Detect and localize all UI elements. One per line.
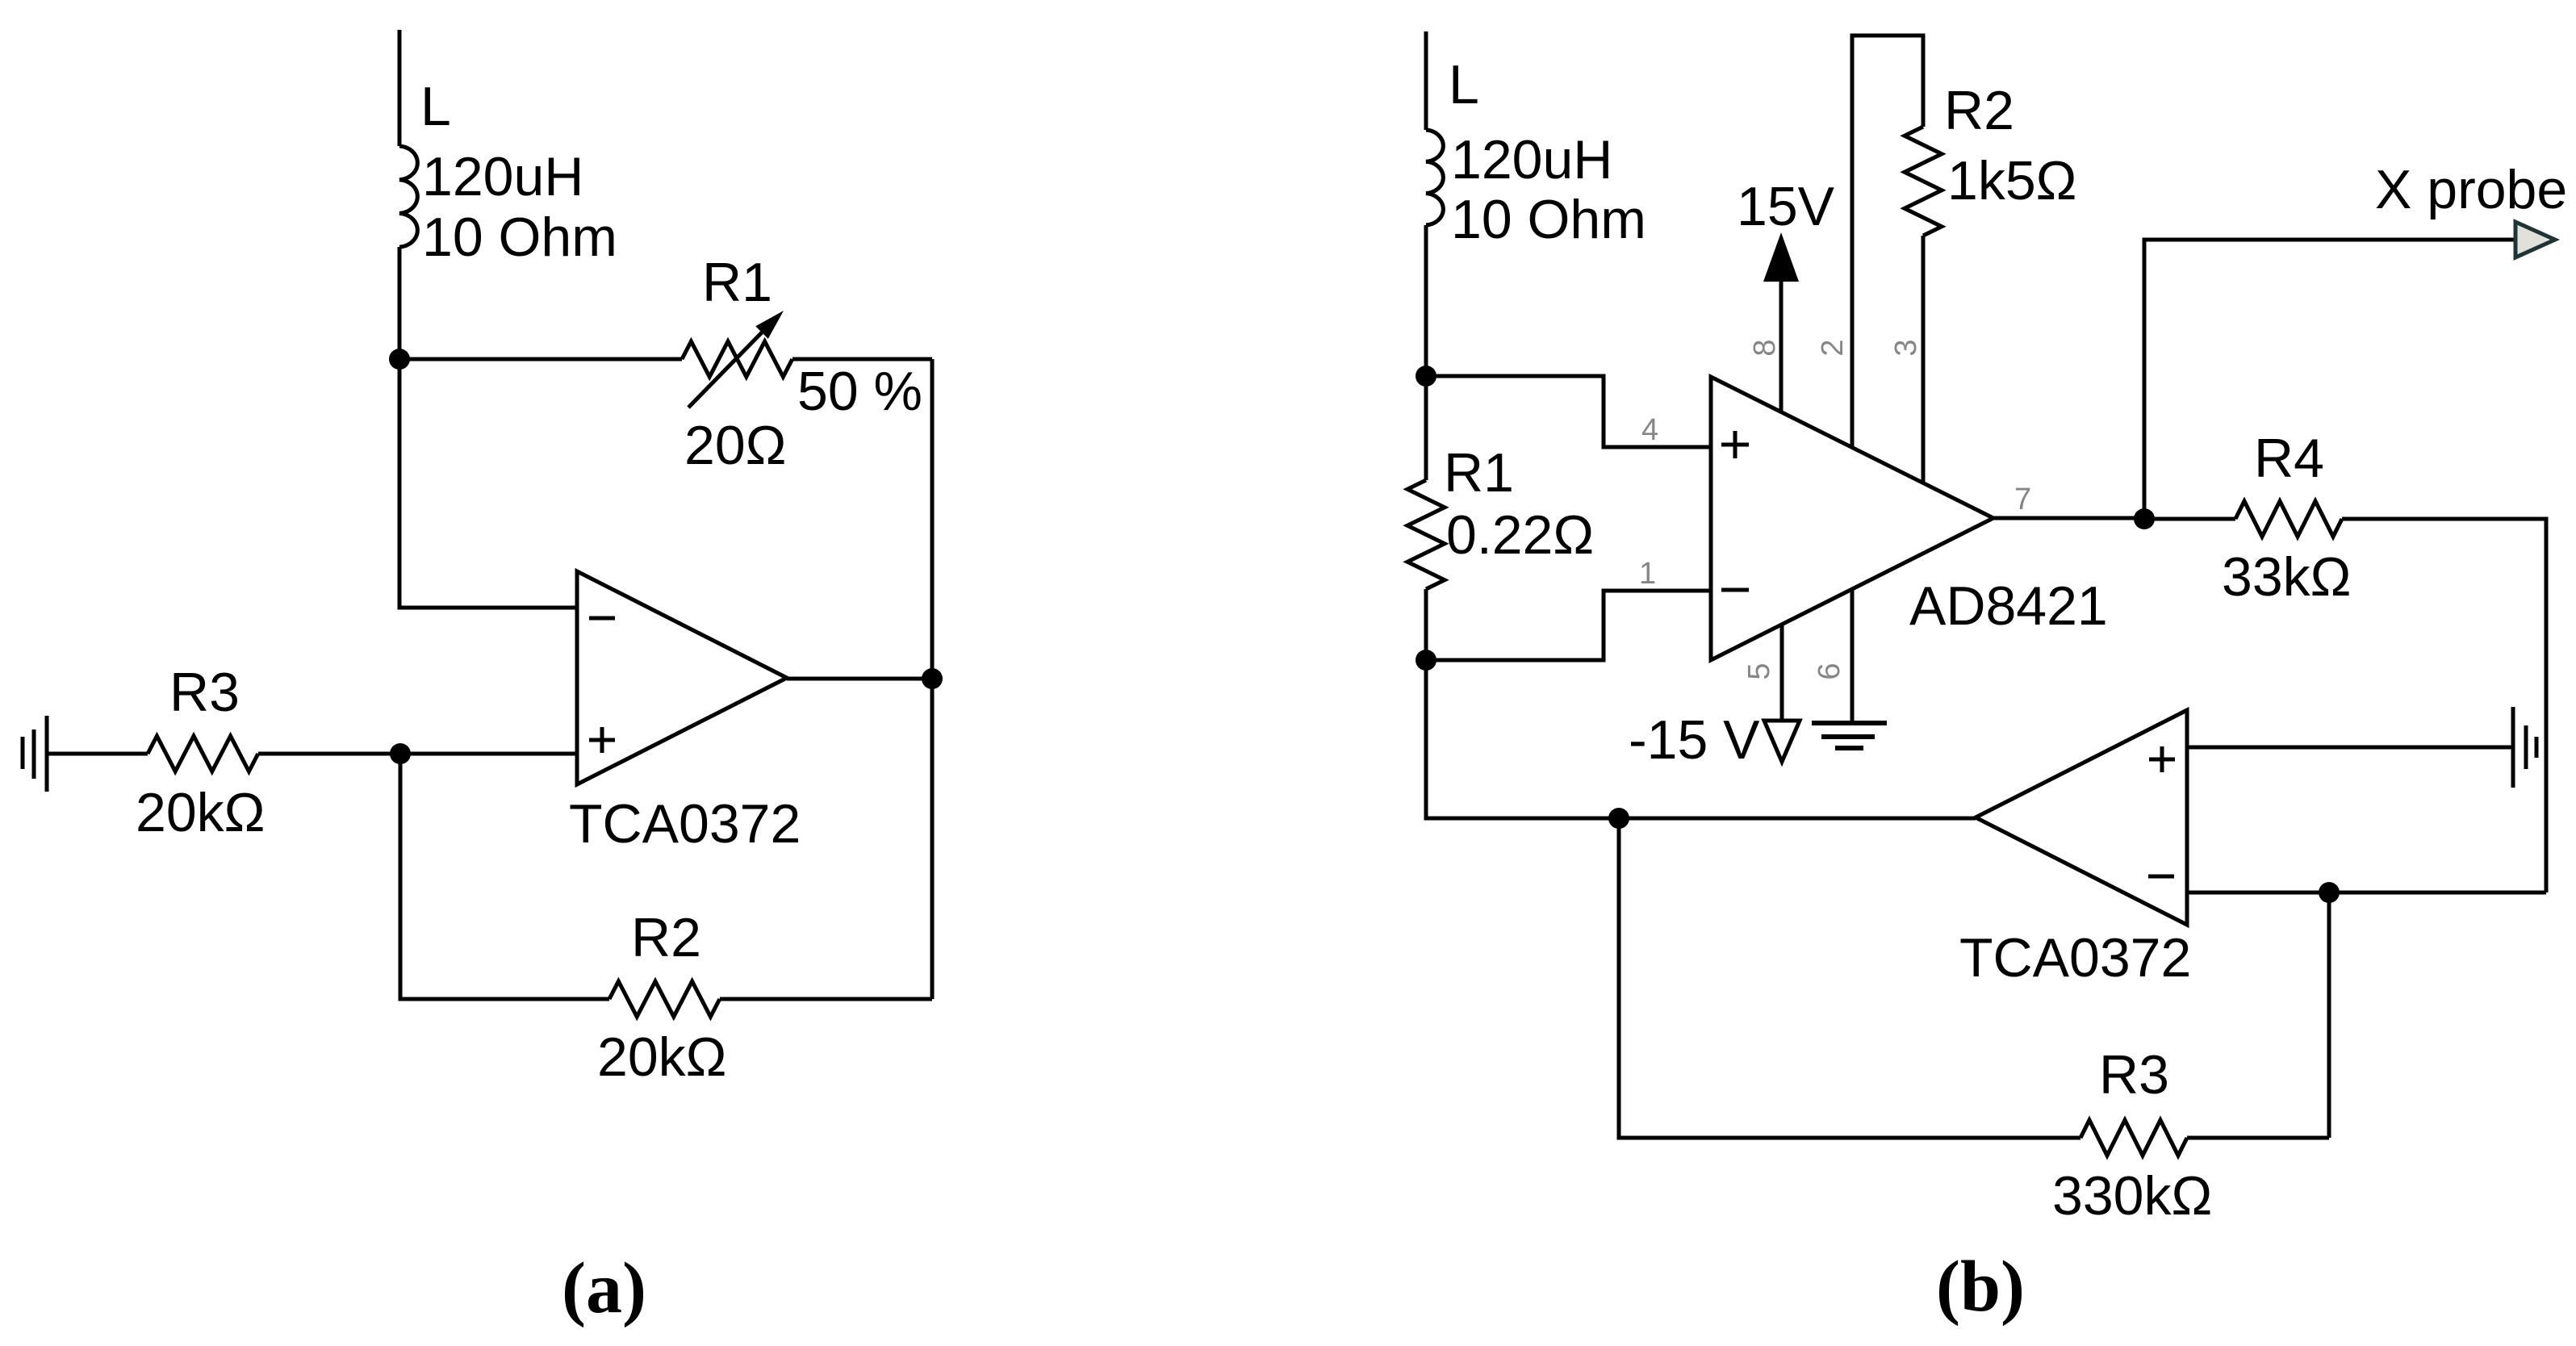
svg-text:20kΩ: 20kΩ: [597, 1026, 726, 1088]
node B3: output node of AD8421: [2134, 508, 2155, 529]
wire: R3 to plus input of U1: [258, 752, 577, 756]
wire: U3 plus input to ground: [2187, 746, 2513, 750]
wire: node B1 step to pin 4 (+ input AD8421): [1426, 376, 1711, 447]
svg-text:33kΩ: 33kΩ: [2222, 546, 2351, 608]
node A3: output node (panel a): [922, 668, 943, 689]
svg-text:R4: R4: [2254, 428, 2324, 489]
wire: panel (a) left vertical top above inductor: [398, 30, 402, 146]
svg-text:120uH: 120uH: [1451, 129, 1612, 190]
wire: pin 5 stem to -15V: [1780, 625, 1784, 721]
resistor R1 0.22 Ohm (panel b, vertical): [1407, 480, 1445, 589]
wire: node B4 down to R3 bottom wire: [2327, 892, 2331, 1138]
node A2: plus input junction (panel a): [390, 743, 411, 764]
wire: R4 right, down the right side to minus input of TCA: [2342, 519, 2546, 892]
svg-text:R3: R3: [169, 662, 240, 723]
wire: node B5 down and right to R3: [1619, 818, 2080, 1138]
wire: panel (a) left vertical below inductor down to minus-input turn: [399, 247, 577, 608]
resistor R1 20 Ohm variable (panel a): [682, 341, 792, 377]
op-amp U3 TCA0372 (panel b, pointing left): [1976, 710, 2187, 925]
svg-text:AD8421: AD8421: [1909, 575, 2108, 637]
svg-text:15V: 15V: [1737, 176, 1835, 237]
node B5: junction on apex wire to R3: [1608, 808, 1629, 829]
wire: R1 right to right vertical corner: [792, 357, 932, 362]
wire: R2 right to right vertical: [720, 997, 932, 1001]
wire: panel (a) right vertical R1 to feedback bottom: [930, 359, 935, 999]
wire: panel (b) left vertical between inductor and R1: [1424, 225, 1428, 480]
plus sign U2: [1721, 431, 1749, 458]
wire: pin 2 up over to R2 top: [1852, 36, 1923, 448]
minus sign U3: [2148, 875, 2174, 879]
ground (panel b, right): [2513, 707, 2536, 788]
resistor R2 1k5 (panel b, vertical): [1905, 127, 1942, 236]
inductor L (panel a): [399, 146, 417, 247]
power -15V arrow (open): [1764, 721, 1800, 762]
earth ground (pin 6): [1812, 723, 1887, 748]
node B4: minus input feedback node: [2319, 882, 2340, 903]
svg-text:L: L: [1449, 54, 1479, 115]
svg-text:(b): (b): [1936, 1247, 2025, 1327]
svg-text:R2: R2: [631, 907, 701, 968]
svg-text:TCA0372: TCA0372: [569, 793, 801, 855]
svg-text:X probe: X probe: [2375, 159, 2567, 220]
node A1: junction of L and R1 (panel a): [389, 349, 410, 370]
svg-text:120uH: 120uH: [422, 146, 583, 207]
wire: node A1 to R1 left: [399, 357, 682, 362]
svg-text:R2: R2: [1944, 80, 2014, 141]
svg-text:7: 7: [2014, 483, 2031, 516]
power 15V arrow (filled): [1763, 232, 1799, 282]
minus sign U2: [1721, 588, 1749, 592]
X probe arrowhead: [2515, 222, 2555, 257]
wire: ground to R3: [47, 752, 148, 756]
node B2: junction R1 bottom / pin1 branch: [1416, 650, 1436, 671]
minus sign U1: [589, 617, 615, 621]
wire: node A2 down to feedback bottom: [400, 754, 609, 999]
svg-text:4: 4: [1641, 413, 1658, 447]
ground (panel a, left): [23, 716, 47, 792]
svg-text:3: 3: [1889, 339, 1923, 356]
resistor R3 330k (panel b): [2080, 1120, 2187, 1156]
wire: panel (b) left vertical top above inductor: [1424, 31, 1428, 130]
svg-text:2: 2: [1816, 339, 1850, 356]
wire: pin 8 stem to 15V: [1779, 282, 1784, 412]
wire: node up and right to X probe: [2144, 240, 2515, 519]
svg-text:10 Ohm: 10 Ohm: [422, 207, 617, 268]
wire: U3 minus input to right vertical: [2187, 891, 2546, 895]
svg-text:-15 V: -15 V: [1629, 709, 1760, 771]
plus sign U1: [589, 727, 615, 753]
wire: node B3 to R4: [2144, 517, 2235, 521]
svg-text:TCA0372: TCA0372: [1959, 927, 2191, 989]
resistor R4 33k (panel b): [2235, 501, 2342, 537]
svg-text:50 %: 50 %: [797, 361, 922, 422]
svg-text:(a): (a): [562, 1248, 646, 1328]
svg-text:8: 8: [1748, 339, 1782, 356]
resistor R3 20k (panel a): [148, 736, 258, 771]
svg-text:0.22Ω: 0.22Ω: [1446, 504, 1594, 566]
wire: AD8421 output pin 7 to node: [1993, 516, 2144, 520]
svg-text:5: 5: [1742, 663, 1776, 679]
svg-text:20kΩ: 20kΩ: [136, 782, 265, 843]
svg-text:R1: R1: [702, 252, 772, 313]
op-amp U1 TCA0372 (panel a): [577, 571, 787, 784]
svg-text:1: 1: [1639, 557, 1656, 591]
svg-text:20Ω: 20Ω: [684, 415, 786, 476]
node B1: junction L / R1 / pin4 branch: [1416, 366, 1436, 387]
wire: pin 6 stem to earth ground: [1850, 589, 1855, 723]
arrow of variable resistor R1: [688, 332, 762, 408]
svg-text:10 Ohm: 10 Ohm: [1451, 189, 1646, 250]
resistor R2 20k feedback (panel a): [609, 981, 720, 1017]
svg-text:1k5Ω: 1k5Ω: [1947, 150, 2076, 211]
svg-text:R3: R3: [2099, 1044, 2169, 1106]
plus sign U3: [2149, 746, 2175, 772]
wire: node B2 step to pin 1 (- input AD8421): [1426, 591, 1711, 660]
wire: U1 output to node: [787, 677, 932, 681]
wire: panel (b) left vertical below R1 down and right to TCA apex: [1426, 589, 1976, 818]
svg-text:L: L: [420, 76, 451, 137]
op-amp U2 AD8421 instrumentation amplifier: [1711, 377, 1993, 660]
svg-text:6: 6: [1813, 663, 1846, 679]
wire: R2 bottom to pin 3: [1922, 236, 1926, 483]
svg-text:R1: R1: [1444, 442, 1514, 504]
inductor L (panel b): [1426, 130, 1443, 225]
wire: R3 right to node B4 vertical: [2187, 1136, 2329, 1140]
svg-text:330kΩ: 330kΩ: [2052, 1165, 2212, 1227]
